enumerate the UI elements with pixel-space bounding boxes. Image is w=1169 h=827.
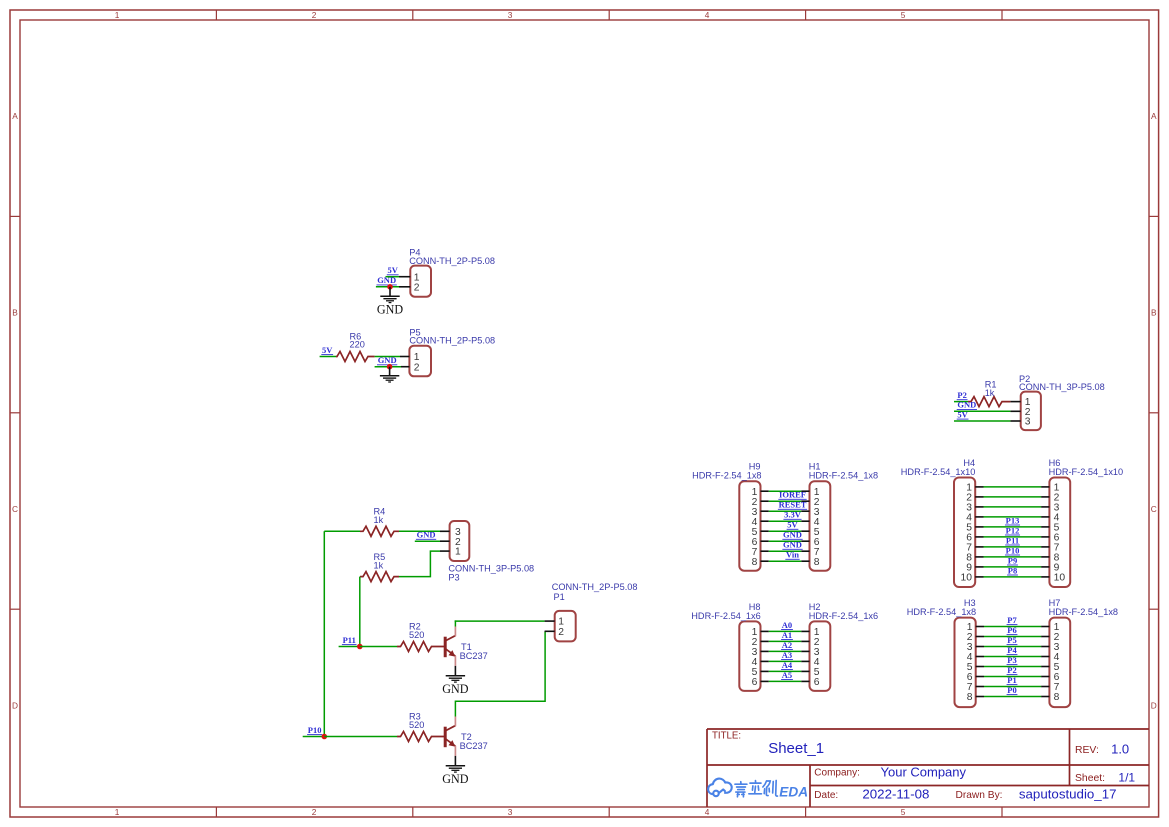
svg-text:P13: P13: [1006, 515, 1020, 525]
pin 5: [761, 530, 769, 532]
svg-text:P2: P2: [1007, 665, 1016, 675]
junction: [387, 284, 393, 290]
net label P10: [307, 725, 322, 735]
resistor R4: [360, 507, 399, 537]
wire: [769, 490, 801, 492]
wire: [769, 640, 801, 642]
wire: [769, 650, 801, 652]
net label 3.3V: [783, 510, 801, 520]
svg-text:CONN-TH_2P-P5.08: CONN-TH_2P-P5.08: [552, 582, 638, 592]
svg-text:saputostudio_17: saputostudio_17: [1019, 786, 1117, 801]
wire R5 to P3 pin 1: [399, 551, 440, 577]
connector P4: [399, 248, 495, 297]
svg-text:5V: 5V: [787, 520, 798, 530]
pin 1: [440, 550, 450, 552]
svg-text:TITLE:: TITLE:: [712, 731, 741, 742]
pin 6: [801, 680, 809, 682]
net label A0: [781, 620, 793, 630]
pin 2: [975, 496, 983, 498]
svg-text:BC237: BC237: [460, 651, 488, 661]
svg-text:220: 220: [350, 340, 365, 350]
node P10 wire: [303, 736, 325, 738]
svg-text:A5: A5: [782, 670, 792, 680]
pin 1: [801, 490, 809, 492]
svg-text:A1: A1: [782, 630, 792, 640]
svg-text:GND: GND: [783, 530, 802, 540]
wire GND to P5 pin 2: [375, 366, 401, 368]
svg-text:6: 6: [814, 677, 820, 688]
pin 7: [1041, 686, 1049, 688]
svg-text:REV:: REV:: [1075, 745, 1099, 756]
wire: [769, 550, 801, 552]
svg-text:3.3V: 3.3V: [784, 510, 802, 520]
wire node P11 to R2: [360, 646, 397, 648]
wire: [984, 546, 1042, 548]
pin 1: [761, 630, 769, 632]
svg-text:B: B: [1151, 308, 1157, 318]
header H6: [1041, 458, 1123, 587]
svg-text:Date:: Date:: [814, 790, 838, 801]
wire: [984, 666, 1041, 668]
svg-text:GND: GND: [442, 682, 468, 696]
svg-text:5V: 5V: [957, 409, 968, 419]
svg-text:Drawn By:: Drawn By:: [956, 790, 1003, 801]
svg-text:P3: P3: [448, 573, 459, 583]
svg-text:RESET: RESET: [779, 500, 807, 510]
wire: [984, 486, 1042, 488]
net label GND: [782, 540, 802, 550]
pin 4: [975, 516, 983, 518]
pin 3: [1041, 646, 1049, 648]
net label GND: [377, 275, 397, 285]
connector P3: [440, 521, 534, 583]
transistor T1: [445, 620, 487, 666]
pin 1: [976, 626, 984, 628]
svg-text:5V: 5V: [388, 265, 399, 275]
pin 2: [545, 630, 555, 632]
junction: [387, 364, 393, 370]
svg-text:8: 8: [752, 557, 758, 568]
wire GND to P4 pin 2: [376, 286, 399, 288]
svg-text:520: 520: [409, 720, 424, 730]
header H8: [691, 602, 769, 691]
net label P11: [342, 635, 357, 645]
svg-text:P5: P5: [1007, 635, 1016, 645]
pin 7: [976, 686, 984, 688]
ground: [442, 666, 468, 696]
wire: [769, 520, 801, 522]
pin 4: [1041, 516, 1049, 518]
svg-text:520: 520: [409, 630, 424, 640]
wire: [984, 556, 1042, 558]
svg-text:GND: GND: [442, 772, 468, 786]
pin 4: [1041, 656, 1049, 658]
svg-text:3: 3: [1025, 417, 1031, 428]
pin 8: [1041, 696, 1049, 698]
net label 5V: [387, 265, 399, 275]
svg-text:CONN-TH_3P-P5.08: CONN-TH_3P-P5.08: [1019, 382, 1105, 392]
header H7: [1041, 598, 1118, 707]
pin 10: [975, 576, 983, 578]
svg-text:P8: P8: [1008, 565, 1017, 575]
pin 8: [801, 560, 809, 562]
header H3: [907, 598, 984, 707]
wire net P2 to R1: [954, 401, 968, 403]
net label A4: [781, 660, 793, 670]
svg-text:A3: A3: [782, 650, 792, 660]
wire: [769, 660, 801, 662]
header H9: [692, 462, 769, 571]
pin 2: [976, 636, 984, 638]
pin 3: [801, 650, 809, 652]
pin 2: [401, 366, 409, 368]
wire 5V to P4 pin 1: [386, 276, 400, 278]
pin 1: [1041, 486, 1049, 488]
svg-text:2: 2: [558, 627, 564, 638]
pin 7: [761, 550, 769, 552]
pin 2: [1041, 636, 1049, 638]
pin 9: [1041, 566, 1049, 568]
wire R4 to P3 pin 3: [399, 530, 440, 532]
wire: [984, 626, 1041, 628]
pin 2: [761, 640, 769, 642]
net label 5V: [787, 520, 799, 530]
pin 2: [440, 540, 450, 542]
connector P5: [400, 327, 495, 376]
wire: [984, 656, 1041, 658]
pin 6: [761, 540, 769, 542]
svg-text:D: D: [12, 700, 18, 710]
svg-text:HDR-F-2.54_1x8: HDR-F-2.54_1x8: [1049, 607, 1118, 617]
svg-text:3: 3: [508, 10, 513, 20]
wire: [984, 696, 1041, 698]
net label A1: [781, 630, 793, 640]
svg-text:HDR-F-2.54_1x8: HDR-F-2.54_1x8: [692, 471, 761, 481]
net label P6: [1007, 625, 1018, 635]
pin 5: [976, 666, 984, 668]
pin 3: [975, 506, 983, 508]
wire GND to P3 pin 2: [415, 540, 440, 542]
svg-text:2: 2: [414, 362, 420, 373]
svg-text:1: 1: [115, 807, 120, 817]
wire: [769, 630, 801, 632]
pin 5: [761, 670, 769, 672]
svg-text:GND: GND: [783, 540, 802, 550]
pin 5: [1041, 666, 1049, 668]
ground: [442, 756, 468, 786]
svg-text:10: 10: [1054, 573, 1066, 584]
wire: [984, 516, 1042, 518]
wire GND to P2 pin 2: [954, 410, 1010, 412]
net label A5: [781, 670, 793, 680]
net label Vin: [785, 550, 799, 560]
svg-text:HDR-F-2.54_1x10: HDR-F-2.54_1x10: [1049, 467, 1124, 477]
svg-text:1k: 1k: [374, 515, 384, 525]
header H1: [801, 462, 878, 571]
svg-text:P10: P10: [1006, 545, 1020, 555]
net label P7: [1007, 615, 1018, 625]
wire: [769, 510, 801, 512]
svg-text:2: 2: [414, 282, 420, 293]
resistor R2: [397, 622, 444, 652]
net label 5V: [321, 345, 333, 355]
resistor R6: [336, 331, 375, 361]
svg-text:EDA: EDA: [779, 784, 808, 799]
svg-text:Sheet:: Sheet:: [1075, 773, 1105, 784]
net label P3: [1007, 655, 1018, 665]
svg-text:P12: P12: [1006, 525, 1020, 535]
svg-text:5V: 5V: [322, 345, 333, 355]
ground: [377, 287, 403, 317]
svg-text:1.0: 1.0: [1111, 742, 1129, 757]
svg-text:8: 8: [814, 557, 820, 568]
wire: [769, 560, 801, 562]
pin 8: [1041, 556, 1049, 558]
svg-text:5: 5: [901, 807, 906, 817]
pin 8: [976, 696, 984, 698]
svg-text:8: 8: [1054, 692, 1060, 703]
svg-text:D: D: [1151, 700, 1157, 710]
pin 5: [975, 526, 983, 528]
wire T2 collector to P1 pin 2: [455, 631, 545, 716]
pin 2: [801, 500, 809, 502]
net label IOREF: [778, 490, 806, 500]
svg-text:HDR-F-2.54_1x10: HDR-F-2.54_1x10: [901, 467, 976, 477]
pin 6: [1041, 536, 1049, 538]
svg-text:P1: P1: [554, 592, 565, 602]
pin 3: [1010, 420, 1020, 422]
wire: [984, 536, 1042, 538]
svg-text:3: 3: [508, 807, 513, 817]
pin 5: [1041, 526, 1049, 528]
svg-text:GND: GND: [377, 275, 396, 285]
wire: [769, 680, 801, 682]
svg-text:P4: P4: [1007, 645, 1017, 655]
svg-text:2022-11-08: 2022-11-08: [862, 786, 929, 801]
pin 1: [801, 630, 809, 632]
net label P10: [1005, 545, 1020, 555]
pin 10: [1041, 576, 1049, 578]
net label P4: [1007, 645, 1018, 655]
svg-text:C: C: [1151, 504, 1157, 514]
pin 2: [1041, 496, 1049, 498]
net label P8: [1007, 565, 1018, 575]
wire 5V to R6: [320, 356, 336, 358]
net label GND: [782, 530, 802, 540]
svg-text:1/1: 1/1: [1118, 770, 1135, 784]
svg-text:Vin: Vin: [786, 550, 799, 560]
connector P2: [1010, 374, 1104, 430]
pin 1: [1010, 401, 1020, 403]
wire: [769, 670, 801, 672]
net label 5V: [957, 409, 969, 419]
net label P0: [1007, 685, 1018, 695]
svg-text:CONN-TH_3P-P5.08: CONN-TH_3P-P5.08: [448, 564, 534, 574]
wire: [984, 636, 1041, 638]
svg-text:IOREF: IOREF: [779, 490, 806, 500]
svg-text:1k: 1k: [374, 560, 384, 570]
pin 4: [976, 656, 984, 658]
svg-text:A0: A0: [782, 620, 792, 630]
net label P13: [1005, 515, 1020, 525]
svg-text:C: C: [12, 504, 18, 514]
pin 1: [1041, 626, 1049, 628]
wire: [984, 676, 1041, 678]
pin 6: [1041, 676, 1049, 678]
pin 3: [801, 510, 809, 512]
wire: [984, 576, 1042, 578]
svg-text:A: A: [1151, 111, 1157, 121]
resistor R3: [397, 712, 444, 742]
wire: [769, 530, 801, 532]
svg-text:HDR-F-2.54_1x6: HDR-F-2.54_1x6: [809, 611, 878, 621]
svg-text:HDR-F-2.54_1x8: HDR-F-2.54_1x8: [907, 607, 976, 617]
pin 2: [801, 640, 809, 642]
pin 3: [976, 646, 984, 648]
svg-text:2: 2: [312, 807, 317, 817]
pin 1: [399, 276, 410, 278]
svg-text:GND: GND: [377, 302, 403, 316]
pin 3: [440, 530, 450, 532]
pin 1: [400, 356, 409, 358]
wire: [984, 526, 1042, 528]
pin 6: [975, 536, 983, 538]
svg-text:P6: P6: [1007, 625, 1016, 635]
svg-text:A2: A2: [782, 640, 792, 650]
pin 3: [761, 510, 769, 512]
svg-text:1: 1: [115, 10, 120, 20]
pin 8: [975, 556, 983, 558]
header H2: [801, 602, 878, 691]
net label P1: [1007, 675, 1018, 685]
svg-text:B: B: [12, 308, 18, 318]
svg-text:P11: P11: [1006, 535, 1019, 545]
pin 4: [761, 520, 769, 522]
pin 5: [801, 530, 809, 532]
pin 8: [761, 560, 769, 562]
svg-text:BC237: BC237: [460, 741, 488, 751]
svg-text:5: 5: [901, 10, 906, 20]
pin 9: [975, 566, 983, 568]
pin 4: [761, 660, 769, 662]
resistor R1: [968, 380, 1010, 407]
net label P2: [957, 390, 968, 400]
svg-text:P10: P10: [308, 725, 322, 735]
pin 6: [801, 540, 809, 542]
pin 7: [975, 546, 983, 548]
svg-text:1: 1: [455, 547, 461, 558]
svg-text:P7: P7: [1007, 615, 1017, 625]
node P11 wire: [339, 646, 360, 648]
svg-text:P11: P11: [343, 635, 356, 645]
svg-text:HDR-F-2.54_1x6: HDR-F-2.54_1x6: [691, 611, 760, 621]
svg-text:4: 4: [705, 10, 710, 20]
pin 6: [976, 676, 984, 678]
svg-text:CONN-TH_2P-P5.08: CONN-TH_2P-P5.08: [409, 336, 495, 346]
svg-text:P2: P2: [957, 390, 966, 400]
wire: [984, 566, 1042, 568]
svg-text:10: 10: [961, 573, 973, 584]
pin 1: [545, 620, 555, 622]
svg-text:A: A: [12, 111, 18, 121]
net label P12: [1005, 525, 1020, 535]
wire: [769, 540, 801, 542]
svg-text:P9: P9: [1008, 555, 1017, 565]
pin 2: [761, 500, 769, 502]
svg-text:6: 6: [752, 677, 758, 688]
svg-text:4: 4: [705, 807, 710, 817]
svg-text:GND: GND: [957, 400, 976, 410]
svg-text:P3: P3: [1007, 655, 1016, 665]
svg-text:A4: A4: [782, 660, 793, 670]
pin 1: [975, 486, 983, 488]
net label GND: [377, 355, 397, 365]
net label P11: [1005, 535, 1020, 545]
wire R6 to P5 pin 1: [375, 356, 400, 358]
wire node P10 to R3: [324, 736, 397, 738]
svg-text:1k: 1k: [985, 388, 995, 398]
svg-text:HDR-F-2.54_1x8: HDR-F-2.54_1x8: [809, 471, 878, 481]
pin 3: [1041, 506, 1049, 508]
net label GND: [957, 400, 977, 410]
wire: [984, 506, 1042, 508]
junction: [322, 734, 328, 740]
net label A2: [781, 640, 793, 650]
net label A3: [781, 650, 793, 660]
wire R4 to node P10: [324, 531, 360, 736]
header H4: [901, 458, 984, 587]
net label GND: [416, 530, 436, 540]
svg-text:CONN-TH_2P-P5.08: CONN-TH_2P-P5.08: [409, 256, 495, 266]
pin 2: [1010, 410, 1020, 412]
svg-text:P0: P0: [1007, 685, 1016, 695]
pin 4: [801, 520, 809, 522]
pin 5: [801, 670, 809, 672]
ground: [380, 367, 399, 382]
svg-text:GND: GND: [378, 355, 397, 365]
svg-text:Your Company: Your Company: [881, 764, 967, 779]
wire 5V to P2 pin 3: [954, 420, 1010, 422]
pin 7: [1041, 546, 1049, 548]
svg-text:Sheet_1: Sheet_1: [768, 740, 824, 757]
net label P5: [1007, 635, 1018, 645]
svg-text:2: 2: [312, 10, 317, 20]
pin 2: [399, 286, 410, 288]
pin 3: [761, 650, 769, 652]
net label P9: [1007, 555, 1018, 565]
wire R5 to node P11: [359, 577, 361, 647]
wire T1 collector to P1 pin 1: [455, 620, 545, 622]
svg-text:Company:: Company:: [814, 768, 860, 779]
wire: [984, 686, 1041, 688]
pin 4: [801, 660, 809, 662]
pin 7: [801, 550, 809, 552]
pin 6: [761, 680, 769, 682]
wire: [984, 646, 1041, 648]
svg-text:GND: GND: [417, 530, 436, 540]
net label P2: [1007, 665, 1018, 675]
pin 1: [761, 490, 769, 492]
transistor T2: [445, 717, 487, 756]
junction: [357, 644, 363, 650]
resistor R5: [360, 552, 399, 582]
wire: [984, 496, 1042, 498]
wire: [769, 500, 801, 502]
svg-text:P1: P1: [1007, 675, 1016, 685]
net label RESET: [778, 500, 807, 510]
svg-text:8: 8: [967, 692, 973, 703]
connector P1: [545, 582, 638, 641]
